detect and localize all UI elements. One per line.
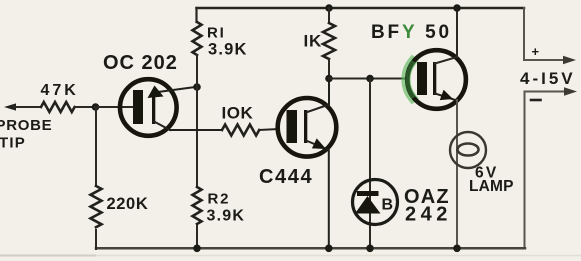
svg-text:TIP: TIP xyxy=(0,135,26,152)
C444 emitter lead xyxy=(306,141,329,249)
wire: 1K bottom lead xyxy=(328,59,330,79)
node: top rail 1K dot xyxy=(325,4,333,12)
label minus xyxy=(531,99,541,102)
resistor 220K xyxy=(91,186,102,227)
BFY50 collector lead xyxy=(435,8,457,64)
probe tip arrowhead xyxy=(4,103,16,110)
wire: minus terminal lead xyxy=(525,92,568,249)
C444 collector lead xyxy=(306,79,329,113)
wire: bottom ground rail xyxy=(96,247,525,250)
resistor R2 3.9K xyxy=(193,187,202,224)
wire: probe lead xyxy=(14,106,41,108)
node: OC202 emitter to R1 dot xyxy=(193,83,201,91)
svg-text:220K: 220K xyxy=(107,195,149,213)
zener anode triangle xyxy=(355,196,381,214)
wire: 1K top lead xyxy=(328,8,330,23)
plus terminal arrowhead xyxy=(563,56,576,64)
wire: top supply rail xyxy=(197,7,525,10)
OC202 collector lead xyxy=(154,122,170,131)
node: zener tap dot xyxy=(366,75,374,83)
wire: emitter to lamp to bottom rail xyxy=(456,100,458,248)
svg-text:LAMP: LAMP xyxy=(469,178,514,195)
svg-text:B: B xyxy=(382,197,394,214)
resistor 1K xyxy=(323,23,335,59)
wire: 47K to base node xyxy=(75,106,95,108)
svg-text:R2: R2 xyxy=(208,191,231,208)
svg-text:C444: C444 xyxy=(259,166,313,188)
svg-text:RI: RI xyxy=(207,25,226,42)
wire: 10K to C444 base xyxy=(259,129,278,130)
green artifact halo on BFY50 circle xyxy=(406,61,413,98)
wire: R1 to junction to crossing xyxy=(196,55,198,187)
svg-text:IK: IK xyxy=(304,32,323,51)
wire: base node to OC202 xyxy=(95,106,134,108)
BFY50 base bar thick xyxy=(417,62,427,95)
faint scan line bottom xyxy=(95,255,581,257)
BFY50 emitter arrow (NPN) xyxy=(440,90,453,100)
faint scan line bottom left xyxy=(0,255,95,257)
minus terminal arrowhead xyxy=(564,87,577,95)
transistor C444 circle xyxy=(278,98,337,157)
svg-text:BFY 50: BFY 50 xyxy=(371,22,452,43)
wire: 220K to bottom rail xyxy=(95,230,97,249)
wire: zener branch vertical xyxy=(369,79,371,249)
node: C444 emitter bottom rail dot xyxy=(325,245,333,253)
svg-text:PROBE: PROBE xyxy=(0,117,52,134)
green artifact tint over BFY50 stroke xyxy=(408,64,413,96)
wire: R2 to bottom rail xyxy=(196,226,198,249)
svg-text:OC 202: OC 202 xyxy=(103,52,178,74)
wire: base node down to 220K xyxy=(95,107,97,186)
OC202 base bar thin xyxy=(152,90,155,124)
node: 1K / C444 collector / BFY50 base dot xyxy=(325,75,333,83)
C444 base bar thick xyxy=(287,110,298,143)
svg-text:4-I5V: 4-I5V xyxy=(520,69,576,88)
node: zener bottom rail dot xyxy=(366,245,374,253)
C444 emitter arrow (NPN) xyxy=(312,138,326,149)
svg-text:3.9K: 3.9K xyxy=(208,41,248,59)
svg-text:242: 242 xyxy=(405,204,452,226)
lamp filament ellipse xyxy=(458,144,479,156)
node: BFY50 collector top rail dot xyxy=(453,4,461,12)
wire: base line to BFY50 xyxy=(329,78,408,80)
resistor 47K xyxy=(41,102,75,112)
BFY50 emitter lead xyxy=(435,94,457,101)
node: lamp bottom rail dot xyxy=(453,245,461,253)
node: R2 bottom rail dot xyxy=(193,245,201,253)
resistor 10K xyxy=(222,125,259,136)
C444 base bar thin xyxy=(304,110,307,143)
node: base junction dot xyxy=(92,103,100,111)
zener diode OAZ242 circle xyxy=(353,180,398,225)
wire: OC202 collector to 10K xyxy=(170,129,222,131)
wire: plus terminal drop xyxy=(524,8,566,60)
OC202 base bar thick xyxy=(133,90,143,124)
transistor OC202 circle xyxy=(120,79,177,136)
lamp circle xyxy=(450,132,486,168)
svg-text:+: + xyxy=(532,44,540,59)
svg-text:47K: 47K xyxy=(41,82,79,99)
zener cathode bar xyxy=(357,191,379,196)
resistor R1 3.9K xyxy=(193,22,202,55)
transistor BFY50 circle xyxy=(407,50,466,109)
svg-text:IOK: IOK xyxy=(222,104,254,123)
OC202 emitter lead xyxy=(158,87,197,92)
wire: R1 top corner xyxy=(195,8,197,22)
OC202 emitter arrow (PNP) xyxy=(148,86,164,99)
BFY50 base bar thin xyxy=(433,62,436,95)
svg-text:3.9K: 3.9K xyxy=(207,208,246,225)
